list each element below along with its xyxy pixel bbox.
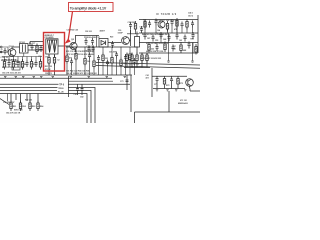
right strip resistor RC4 (141, 53, 143, 64)
right row1 resistor RB3 (186, 19, 188, 30)
svg-text:10K 4.7 103 22K 472 1K 103 33K: 10K 4.7 103 22K 472 1K 103 33K 102 (66, 72, 97, 75)
resistor R73 (177, 76, 179, 87)
wire vertical x68.5 (68, 76, 70, 97)
wire right mid rail (139, 32, 198, 34)
wire right vertical x168 (168, 33, 170, 61)
wire vertical right band v2 (160, 33, 162, 43)
svg-text:IC 7642B 1/2: IC 7642B 1/2 (156, 13, 177, 16)
capacitor C31 top (140, 26, 143, 33)
right row2 capacitor CB8 (168, 34, 171, 41)
right strip resistor RC3 (136, 53, 138, 64)
right row3 capacitor CB13 (172, 45, 175, 52)
capacitor C105 (8, 60, 11, 67)
bus line 2 with bend (0, 88, 95, 124)
right row2 capacitor CB9 (176, 33, 179, 40)
right strip resistor RC2 (131, 53, 133, 64)
capacitor C102 (31, 44, 34, 51)
mid column capacitor CA6 (115, 52, 118, 59)
wire right vertical edge (197, 15, 199, 53)
wire corner top right (190, 89, 200, 92)
right row1 capacitor CB2 (171, 19, 174, 26)
mid column resistor RA5 (102, 53, 104, 64)
right row1 capacitor CB1 (155, 19, 158, 26)
svg-text:C28 103: C28 103 (85, 31, 92, 33)
right row3 resistor RB8 (195, 44, 197, 55)
wire audio input line (0, 51, 8, 53)
right row3 resistor RB5 (148, 42, 150, 53)
svg-text:R94: R94 (40, 105, 44, 108)
box around left resistors (12, 62, 20, 71)
drop resistor RD1 (10, 94, 12, 104)
mid column resistor RA7 (120, 58, 122, 69)
svg-text:C31: C31 (140, 27, 143, 29)
resistor R72 (163, 76, 165, 87)
wire block output upper (28, 45, 44, 47)
capacitor C107 (17, 60, 20, 67)
capacitor CB0 (148, 21, 151, 28)
svg-text:L2 C17: L2 C17 (29, 43, 35, 45)
svg-text:103 22K 471 10K 223 4.7: 103 22K 471 10K 223 4.7 (155, 19, 176, 22)
drop resistor RD2 (16, 94, 21, 104)
wire branch y81 (69, 80, 114, 82)
wire junction mid (96, 36, 98, 48)
svg-text:10K: 10K (173, 49, 177, 51)
bus line TP6 (0, 83, 130, 85)
label TP 6 (59, 82, 69, 86)
capacitor C203 (88, 46, 91, 53)
transistor Q6 (122, 37, 130, 45)
mid column resistor RA3 (84, 56, 86, 67)
drop resistor RD3 (27, 94, 30, 104)
transformer T1 (135, 32, 140, 54)
wire vertical x131 to box (130, 75, 132, 112)
svg-text:C2: C2 (57, 60, 59, 62)
right row2 capacitor CB6 (152, 35, 155, 42)
svg-text:R72: R72 (166, 85, 169, 87)
svg-text:223: 223 (155, 43, 158, 45)
svg-text:R41 C42 R43 C44 R45 C46 R47: R41 C42 R43 C44 R45 C46 R47 (142, 33, 168, 36)
wire C207 leads (127, 29, 139, 34)
capacitor C101 (4, 48, 7, 55)
svg-text:222: 222 (151, 49, 154, 51)
svg-text:R36 102: R36 102 (85, 51, 92, 53)
wire collector riser Q5 (75, 36, 99, 43)
wire bottom-right lower rail (153, 83, 190, 89)
wire red-box output to Q5 (58, 45, 70, 47)
mid column capacitor CA3 (88, 53, 91, 60)
svg-text:C23 C24: C23 C24 (87, 45, 95, 48)
wire right bottom rail (139, 52, 198, 54)
wire filter to resistors (49, 54, 55, 75)
svg-text:47K: 47K (174, 28, 178, 31)
svg-text:R73: R73 (180, 83, 183, 85)
right row2 capacitor CB10 (184, 35, 187, 42)
svg-text:C28 472: C28 472 (45, 72, 52, 75)
capacitor C207 above rail (129, 22, 132, 29)
resistor R106 (12, 59, 14, 70)
resistor R112 (39, 59, 41, 70)
svg-text:102 4.7K 103 2.2K 473: 102 4.7K 103 2.2K 473 (2, 72, 21, 75)
right strip resistor RC1 (126, 53, 128, 64)
capacitor C71 (156, 76, 159, 83)
ground symbol x168 (167, 61, 170, 62)
drop wire short (7, 94, 9, 102)
right row2 capacitor CB5 (144, 33, 147, 40)
resistor R104 (3, 59, 5, 70)
resistor R110 (30, 59, 32, 70)
svg-text:Q5: Q5 (71, 39, 75, 41)
right row1 capacitor CB3 (181, 22, 184, 29)
wire bus line 2 (0, 77, 112, 79)
mid column capacitor CA8 (133, 58, 136, 65)
diode block D201 (99, 39, 108, 48)
wire upper branch left (30, 42, 44, 46)
resistor R201 (48, 55, 50, 66)
transistor Q5 (70, 42, 77, 52)
svg-text:C48: C48 (163, 38, 166, 41)
junction dots mid rail (67, 33, 182, 48)
svg-text:SL-26: SL-26 (58, 91, 65, 93)
red highlight rectangle (44, 33, 65, 72)
filter block CF101 (20, 44, 29, 54)
capacitor C81 (76, 84, 79, 95)
mid column capacitor CA7 (124, 54, 127, 61)
wire right vertical x192 (192, 43, 194, 62)
resistor R208 above rail (134, 21, 136, 32)
capacitor C109 (26, 60, 29, 67)
mid column resistor RA4 (93, 59, 95, 70)
svg-text:PR2030-455K C27: PR2030-455K C27 (84, 36, 100, 39)
right row2 capacitor CB7 (160, 32, 163, 39)
capacitor C72 (170, 77, 173, 84)
svg-text:C38 47K: C38 47K (109, 51, 117, 54)
right row3 resistor RB7 (180, 43, 182, 54)
right row3 capacitor CB12 (156, 44, 159, 51)
capacitor C205 on collector wire (85, 38, 88, 45)
label TR26 (58, 86, 69, 90)
right strip ground line (124, 53, 150, 68)
drop resistor RD4 (37, 94, 39, 104)
svg-text:Q101: Q101 (9, 46, 15, 48)
svg-text:1T5: 1T5 (45, 56, 48, 58)
transistor Q101 (8, 49, 16, 57)
transistor Q8 (186, 79, 194, 87)
mid column resistor RA2 (75, 51, 77, 62)
wire vertical right band v4 (192, 43, 194, 54)
svg-text:R40: R40 (143, 19, 146, 22)
capacitor C206 on collector wire (91, 38, 94, 45)
wire vertical x169 to box (168, 91, 170, 112)
label SL-26 (57, 89, 69, 93)
svg-text:68K: 68K (183, 50, 187, 52)
svg-text:J1: J1 (1, 49, 3, 51)
right row2 capacitor CB11 (192, 32, 195, 39)
mid column resistor RA1 (66, 54, 68, 65)
wire Q101 to block (12, 47, 20, 49)
svg-text:223 10K 472 103 47K 222: 223 10K 472 103 47K 222 (140, 57, 161, 60)
ground symbol x192 (191, 61, 194, 62)
svg-text:102: 102 (179, 40, 182, 42)
right row1 leads (156, 26, 193, 34)
svg-text:C73: C73 (120, 81, 123, 83)
svg-text:223: 223 (105, 58, 108, 60)
svg-text:10K: 10K (87, 61, 91, 63)
right row1 resistor RB2 (176, 18, 178, 29)
svg-text:IC1 1/2: IC1 1/2 (180, 100, 188, 102)
wire left band header line (2, 53, 42, 62)
svg-text:470: 470 (69, 57, 72, 60)
amplifier block box (135, 112, 201, 123)
svg-text:472 103 1K 223 102 47K 331 68K: 472 103 1K 223 102 47K 331 68K (67, 53, 95, 56)
right row3 resistor RB6 (164, 42, 166, 53)
wire block output lower (28, 49, 44, 51)
red arrowhead (65, 38, 71, 44)
svg-text:SW1 1/2W: SW1 1/2W (14, 109, 23, 111)
transistor Q7b (158, 21, 165, 28)
filter element right (52, 40, 57, 53)
wire diagonal bottom-left (0, 99, 9, 105)
capacitor C82 (81, 84, 84, 95)
svg-text:R21 C22: R21 C22 (45, 66, 52, 68)
bus line 3 with bend (0, 91, 91, 124)
resistor R202 (53, 55, 55, 66)
resistor RB0 (144, 19, 146, 30)
wire vertical x127 (126, 75, 128, 90)
svg-text:472: 472 (146, 77, 149, 80)
right row1 resistor RB1 (166, 21, 168, 32)
wire ground bus (0, 74, 132, 76)
svg-text:R11 C12 R13 C14 R15 C16: R11 C12 R13 C14 R15 C16 (2, 66, 24, 69)
wire vertical x152 (151, 68, 153, 97)
wire long line A (96, 63, 200, 66)
svg-text:C27 R28: C27 R28 (128, 22, 135, 24)
connector circle upper (0, 46, 2, 48)
svg-text:KB2904-D: KB2904-D (178, 102, 188, 105)
ground hatch marks left extra (4, 76, 43, 77)
wire mid line right (108, 42, 121, 44)
wire right top rail (139, 19, 198, 21)
svg-text:C95 R96 C97: C95 R96 C97 (3, 102, 14, 104)
mid column leads (67, 47, 135, 75)
capacitor C19 left of box (40, 45, 43, 52)
filter element left (47, 40, 52, 53)
svg-text:C45 1: C45 1 (188, 12, 193, 15)
red leader line (68, 12, 72, 40)
svg-text:R95 C96: R95 C96 (25, 100, 32, 102)
wire bottom-right rail (152, 75, 187, 77)
svg-text:R29: R29 (110, 37, 113, 39)
red callout box (69, 3, 114, 12)
svg-text:R61 R62 R63 R64: R61 R62 R63 R64 (125, 63, 140, 66)
svg-text:1000P: 1000P (118, 32, 124, 34)
capacitor C204 (92, 46, 95, 53)
ground ticks right cluster (156, 90, 187, 91)
svg-text:1K5: 1K5 (123, 63, 126, 65)
resistor R108 (21, 59, 23, 70)
svg-text:C82: C82 (80, 97, 83, 99)
mid column capacitor CA5 (106, 60, 109, 67)
svg-text:C47: C47 (147, 37, 150, 40)
svg-text:102 4.7K 223 1K: 102 4.7K 223 1K (6, 112, 21, 115)
svg-text:R93: R93 (32, 106, 35, 108)
svg-text:To amplifyl diode +1.1V: To amplifyl diode +1.1V (70, 7, 107, 11)
right row1 capacitor CB4 (191, 21, 194, 28)
wire vertical right band v3 (176, 20, 178, 34)
svg-text:CF101: CF101 (19, 42, 26, 44)
svg-text:R92: R92 (22, 106, 25, 108)
resistor R103 (36, 44, 38, 55)
mid column resistor RA6 (111, 55, 113, 66)
bus line 4 with bend (0, 94, 87, 124)
mid column capacitor CA1 (70, 59, 73, 66)
connector circle lower (0, 47, 8, 53)
wire Q6 collector (129, 30, 130, 46)
svg-text:104: 104 (157, 29, 160, 32)
svg-text:R49: R49 (191, 38, 194, 41)
capacitor C111 (35, 60, 38, 67)
right row3 capacitor CB14 (188, 42, 191, 49)
svg-text:10U 2: 10U 2 (188, 15, 193, 17)
wire mid lower line (66, 46, 138, 48)
svg-text:683 102 33K 471 224: 683 102 33K 471 224 (146, 50, 163, 53)
wire vertical right band v1 (144, 20, 146, 34)
ground hatch marks under rail (15, 76, 127, 77)
right strip resistor RC5 (146, 53, 148, 64)
capacitor C73 (126, 80, 129, 82)
capacitor C29 (111, 41, 114, 48)
wire long line B (96, 66, 200, 69)
wire right rail 3 (139, 42, 198, 44)
svg-text:C21 R22 C25: C21 R22 C25 (67, 30, 78, 32)
mid column capacitor CA4 (97, 55, 100, 62)
filter body CF201 (46, 39, 58, 54)
svg-text:R91: R91 (13, 106, 16, 108)
svg-text:C81: C81 (74, 94, 77, 96)
svg-text:455KT: 455KT (100, 30, 106, 33)
mid column resistor RA8 (129, 52, 131, 63)
